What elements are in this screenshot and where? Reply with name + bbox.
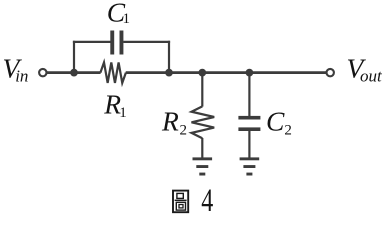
caption figure number 4 (201, 183, 213, 219)
ground (below C2) (240, 157, 260, 175)
svg-text:out: out (360, 67, 383, 86)
output terminal (open circle) (327, 69, 334, 76)
resistor R1 (zigzag) (100, 62, 126, 83)
ground (below R2) (193, 157, 213, 175)
svg-text:in: in (15, 67, 28, 86)
svg-text:R: R (161, 106, 179, 137)
svg-text:2: 2 (180, 123, 188, 139)
wire: right riser of C1 branch (168, 41, 170, 73)
node B (junction dot, right node of C1/R1) (165, 69, 173, 77)
wire: top branch right segment from C1 (123, 41, 170, 43)
node D (junction dot, C2 tap) (246, 69, 254, 77)
svg-text:C: C (266, 106, 285, 137)
wire: left riser of C1 branch (73, 41, 75, 73)
node C (junction dot, R2 tap) (198, 69, 206, 77)
label R2 (161, 106, 187, 139)
svg-text:1: 1 (119, 105, 127, 121)
label Vout (347, 53, 384, 86)
caption ideograph 圖 (drawn) (173, 191, 188, 213)
svg-text:1: 1 (123, 11, 131, 27)
wire: top branch left segment to C1 (73, 41, 111, 43)
label C1 (107, 0, 130, 27)
wire: R1 right lead to output terminal (main line) (126, 71, 327, 74)
resistor R2 (vertical zigzag) (192, 106, 215, 138)
node A (junction dot, left node of C1/R1) (70, 69, 78, 77)
svg-text:2: 2 (284, 123, 292, 139)
label R1 (103, 89, 127, 121)
wire: R2 to ground (201, 138, 203, 158)
input terminal (open circle) (39, 69, 46, 76)
wire: node D down to C2 (248, 73, 250, 117)
wire: C2 to ground (248, 131, 250, 158)
label C2 (266, 106, 292, 139)
svg-text:4: 4 (201, 183, 213, 219)
capacitor C2 (two horizontal plates) (238, 116, 260, 131)
capacitor C1 (two vertical plates) (110, 31, 123, 55)
wire: input terminal to R1 left lead (main line) (47, 71, 101, 74)
wire: node C down to R2 (201, 73, 203, 107)
label Vin (3, 53, 29, 86)
